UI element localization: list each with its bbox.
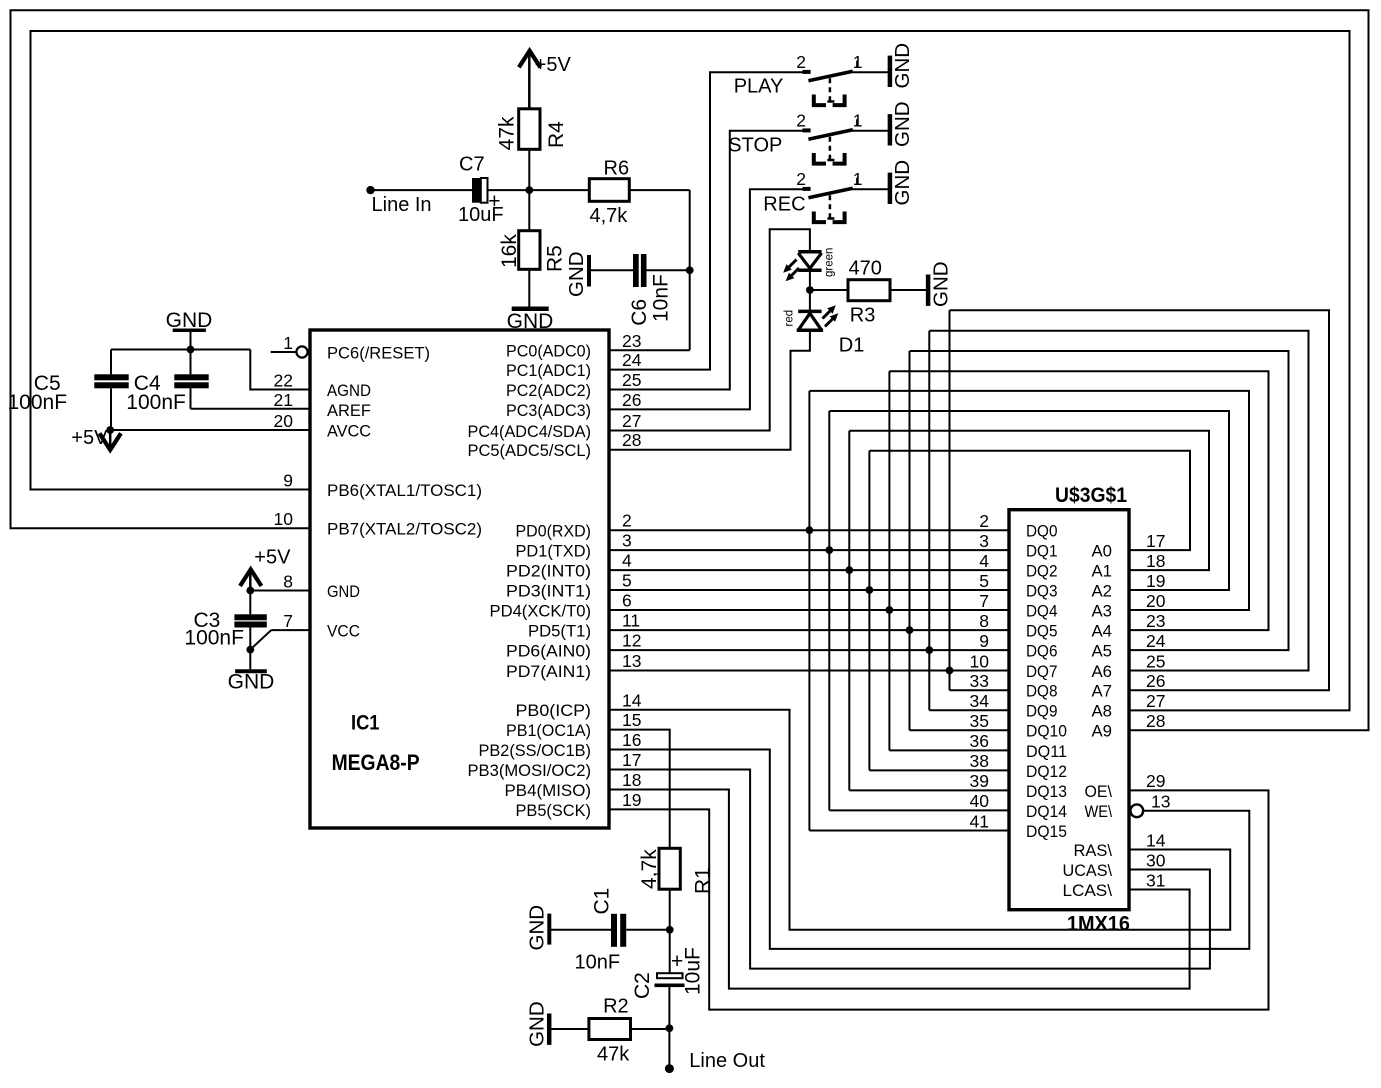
- wire C6 to node B: [647, 269, 690, 271]
- wire R4 to node A: [528, 149, 530, 190]
- wire DQ12 to column: [869, 769, 1009, 771]
- svg-text:470: 470: [849, 258, 882, 280]
- svg-text:GND: GND: [526, 1001, 549, 1047]
- wire R6 to PC0 column: [629, 189, 689, 191]
- svg-text:AREF: AREF: [327, 401, 371, 420]
- svg-text:29: 29: [1146, 771, 1165, 791]
- svg-text:18: 18: [622, 770, 641, 790]
- svg-text:10uF: 10uF: [458, 204, 504, 226]
- svg-text:DQ9: DQ9: [1026, 702, 1058, 721]
- LED D1 green: [798, 250, 821, 254]
- svg-text:A3: A3: [1092, 601, 1113, 620]
- svg-text:PD2(INT0): PD2(INT0): [506, 562, 591, 581]
- svg-text:DQ11: DQ11: [1026, 742, 1067, 761]
- wire PB1 pin15 to R1: [609, 730, 670, 849]
- capacitor C6: [633, 254, 639, 287]
- svg-text:4: 4: [622, 551, 632, 571]
- svg-text:2: 2: [979, 511, 989, 531]
- wire MCU to REC switch: [609, 189, 803, 409]
- svg-text:4,7k: 4,7k: [638, 849, 661, 889]
- svg-text:PB3(MOSI/OC2): PB3(MOSI/OC2): [468, 761, 592, 780]
- ground at R3: [926, 275, 931, 306]
- svg-text:D1: D1: [839, 335, 865, 357]
- svg-text:25: 25: [1146, 651, 1165, 671]
- wire memory A5 loop: [910, 351, 1289, 650]
- svg-text:DQ15: DQ15: [1026, 822, 1067, 841]
- svg-text:20: 20: [274, 411, 294, 431]
- svg-text:GND: GND: [930, 261, 953, 307]
- node Line Out terminal: [665, 1064, 674, 1073]
- svg-text:26: 26: [1146, 671, 1165, 691]
- svg-text:38: 38: [970, 751, 989, 771]
- svg-text:25: 25: [622, 370, 641, 390]
- svg-text:10: 10: [274, 509, 294, 529]
- pin WE inversion circle: [1130, 804, 1143, 817]
- svg-text:Line In: Line In: [372, 194, 432, 216]
- svg-text:DQ7: DQ7: [1026, 662, 1058, 681]
- ground at REC: [888, 173, 893, 204]
- svg-text:9: 9: [283, 470, 293, 490]
- svg-text:100nF: 100nF: [184, 626, 244, 649]
- wire memory A0 loop: [869, 451, 1190, 550]
- svg-text:1: 1: [283, 333, 293, 353]
- wire C3 to gnd node: [249, 628, 251, 650]
- svg-text:100nF: 100nF: [126, 391, 186, 414]
- wire MCU PC4 pin 27 to green LED: [609, 229, 810, 430]
- wire PB0 pin14 to RAS: [609, 710, 1230, 930]
- switch S-REC: [803, 187, 811, 191]
- IC IC1 MEGA8-P body: [310, 330, 609, 828]
- svg-text:A7: A7: [1092, 682, 1113, 701]
- wire PB2 pin16 to WE: [609, 750, 1249, 949]
- svg-text:AGND: AGND: [327, 381, 371, 400]
- ground at C1: [547, 914, 551, 945]
- node C3 gnd junction: [246, 646, 254, 654]
- svg-text:17: 17: [622, 750, 641, 770]
- wire node B to MCU PC0 pin 23: [689, 270, 691, 350]
- power +5V arrow down left: [109, 430, 112, 447]
- ground at C6: [587, 255, 591, 287]
- svg-text:REC: REC: [763, 193, 805, 215]
- ground at R2: [547, 1014, 552, 1045]
- wire to MCU AVCC pin 20: [110, 429, 310, 431]
- wire MCU to PLAY switch: [609, 72, 803, 369]
- svg-text:30: 30: [1146, 850, 1166, 870]
- svg-text:R3: R3: [850, 305, 876, 327]
- ground at PLAY: [888, 56, 893, 87]
- svg-text:1MX16: 1MX16: [1067, 913, 1130, 936]
- wire R5 to ground: [528, 269, 530, 306]
- svg-text:19: 19: [622, 790, 641, 810]
- wire node A to R6: [529, 189, 589, 191]
- wire C5 C4 gnd rail: [111, 349, 250, 351]
- node D1 junction: [806, 286, 814, 294]
- svg-text:10nF: 10nF: [650, 274, 673, 322]
- wire memory A3 loop: [809, 391, 1249, 610]
- wire DQ10 to column: [910, 729, 1010, 731]
- svg-text:15: 15: [622, 710, 641, 730]
- svg-text:PLAY: PLAY: [734, 75, 784, 97]
- wire PLAY to ground: [851, 71, 888, 73]
- svg-text:10uF: 10uF: [682, 947, 705, 995]
- svg-text:STOP: STOP: [728, 134, 782, 156]
- svg-text:DQ8: DQ8: [1026, 682, 1058, 701]
- pin 1 reset stub and circle: [271, 351, 297, 353]
- wire node A to R5: [528, 190, 530, 231]
- svg-text:PD4(XCK/T0): PD4(XCK/T0): [490, 601, 592, 620]
- ground below R5: [512, 306, 549, 311]
- svg-text:22: 22: [274, 370, 293, 390]
- svg-text:A8: A8: [1092, 702, 1113, 721]
- svg-text:5: 5: [622, 571, 632, 591]
- svg-text:3: 3: [622, 531, 632, 551]
- wire PB6 pin9 to memory A8 inner loop: [31, 31, 1350, 710]
- switch S-PLAY: [803, 70, 811, 74]
- svg-text:R4: R4: [545, 121, 568, 148]
- svg-text:1: 1: [853, 52, 863, 72]
- svg-text:16k: 16k: [498, 234, 521, 268]
- svg-text:A0: A0: [1092, 542, 1113, 561]
- node D5 junction: [906, 626, 914, 634]
- wire data column D0: [808, 391, 810, 831]
- svg-text:GND: GND: [565, 251, 588, 297]
- node Line In terminal: [366, 186, 374, 194]
- svg-text:2: 2: [622, 511, 632, 531]
- svg-text:2: 2: [796, 111, 806, 131]
- svg-text:36: 36: [970, 731, 989, 751]
- wire memory A2 loop: [829, 411, 1229, 590]
- LED D1 red arrows: [823, 310, 832, 319]
- svg-text:GND: GND: [891, 43, 914, 89]
- svg-text:13: 13: [622, 651, 641, 671]
- svg-text:green: green: [824, 248, 836, 277]
- wire R2 to node D: [631, 1028, 670, 1030]
- svg-text:2: 2: [796, 169, 806, 189]
- svg-text:19: 19: [1146, 571, 1165, 591]
- wire DQ15 to column: [809, 830, 1009, 832]
- capacitor C5: [110, 350, 112, 375]
- svg-text:1: 1: [853, 111, 863, 131]
- wire memory A1 loop: [849, 431, 1209, 570]
- wire R3 to ground: [890, 289, 926, 291]
- svg-text:13: 13: [1151, 792, 1170, 812]
- svg-text:PD0(RXD): PD0(RXD): [516, 522, 592, 541]
- resistor R3: [848, 280, 890, 301]
- svg-text:10nF: 10nF: [575, 952, 621, 974]
- svg-text:A5: A5: [1092, 642, 1113, 661]
- switch S-STOP: [803, 128, 811, 132]
- wire PB4 pin18 to LCAS: [609, 790, 1190, 989]
- svg-text:C2: C2: [631, 972, 654, 999]
- wire DQ11 to column: [889, 749, 1009, 751]
- wire rail to MCU AGND pin 22: [250, 350, 310, 390]
- svg-text:DQ12: DQ12: [1026, 762, 1067, 781]
- wire data column D7: [949, 310, 951, 690]
- wire data column D6: [928, 331, 930, 711]
- wire VCC pin 7 diagonal: [271, 629, 310, 631]
- capacitor C1: [611, 914, 617, 947]
- svg-text:AVCC: AVCC: [327, 421, 371, 440]
- svg-text:39: 39: [970, 771, 989, 791]
- IC U$3G$1 1MX16 body: [1009, 510, 1129, 910]
- svg-text:VCC: VCC: [327, 622, 360, 641]
- wire PB3 pin17 to UCAS: [609, 770, 1210, 969]
- svg-text:12: 12: [622, 631, 641, 651]
- wire REC to ground: [851, 188, 888, 190]
- node +5V C5 junction: [106, 426, 114, 434]
- svg-text:23: 23: [622, 331, 641, 351]
- wire to MCU GND pin 8: [250, 590, 310, 592]
- wire MCU to STOP switch: [609, 131, 803, 390]
- svg-text:+5V: +5V: [535, 54, 572, 76]
- wire PB5 pin19 to OE: [609, 790, 1269, 1009]
- wire node C to C2: [669, 930, 671, 973]
- node B junction C6 R6 PC0: [686, 266, 694, 274]
- wire C2 to node D: [668, 987, 670, 1028]
- svg-text:27: 27: [622, 411, 641, 431]
- wire PD2 data bus row: [609, 569, 1009, 571]
- svg-text:A6: A6: [1092, 662, 1113, 681]
- svg-text:DQ5: DQ5: [1026, 622, 1058, 641]
- svg-text:26: 26: [622, 390, 641, 410]
- wire DQ9 to column: [929, 709, 1009, 711]
- svg-text:28: 28: [622, 430, 641, 450]
- svg-text:33: 33: [970, 671, 989, 691]
- wire Line In to C7: [371, 189, 473, 191]
- svg-text:A1: A1: [1092, 562, 1113, 581]
- svg-text:PC6(/RESET): PC6(/RESET): [327, 343, 430, 362]
- resistor R5: [519, 231, 540, 270]
- resistor R6: [589, 179, 629, 202]
- node D6 junction: [925, 646, 933, 654]
- wire DQ8 to column: [950, 689, 1010, 691]
- svg-text:+5V: +5V: [71, 427, 108, 449]
- power +5V arrow at C3: [240, 569, 261, 586]
- wire to ground C3: [249, 650, 251, 670]
- LED D1 red: [798, 310, 821, 314]
- wire PD7 data bus row: [609, 670, 1009, 672]
- svg-text:6: 6: [622, 591, 632, 611]
- svg-text:R5: R5: [544, 245, 567, 272]
- capacitor C4: [190, 350, 192, 375]
- wire PD1 data bus row: [609, 549, 1009, 551]
- svg-text:27: 27: [1146, 691, 1165, 711]
- wire C4 to MCU AREF pin 21: [191, 408, 311, 410]
- svg-text:4: 4: [979, 551, 989, 571]
- svg-text:4,7k: 4,7k: [590, 205, 629, 227]
- node VCC junction pin 8: [246, 587, 254, 595]
- wire ground to C1: [551, 929, 611, 931]
- svg-text:DQ2: DQ2: [1026, 562, 1058, 581]
- svg-text:40: 40: [970, 791, 990, 811]
- svg-text:PB7(XTAL2/TOSC2): PB7(XTAL2/TOSC2): [327, 520, 482, 539]
- wire ground to R2: [551, 1028, 589, 1030]
- wire data column D1: [828, 411, 830, 810]
- svg-text:WE\: WE\: [1085, 802, 1113, 821]
- svg-text:R6: R6: [604, 158, 630, 180]
- svg-text:IC1: IC1: [351, 712, 380, 735]
- wire data column D3: [868, 451, 870, 771]
- svg-text:PB0(ICP): PB0(ICP): [516, 701, 592, 720]
- svg-text:1: 1: [853, 169, 863, 189]
- svg-text:8: 8: [979, 611, 989, 631]
- svg-text:23: 23: [1146, 611, 1165, 631]
- wire data column D2: [848, 431, 850, 791]
- LED D1 green arrows: [788, 260, 797, 269]
- wire memory A4 loop: [889, 371, 1268, 630]
- node C junction R1 C1 C2: [666, 926, 674, 934]
- svg-text:2: 2: [796, 52, 806, 72]
- wire R1 to node C: [669, 889, 671, 930]
- svg-text:C7: C7: [459, 154, 485, 176]
- svg-text:14: 14: [1146, 830, 1166, 850]
- resistor R2: [589, 1019, 631, 1040]
- wire data column D4: [888, 371, 890, 750]
- wire C7 to node A: [488, 189, 530, 191]
- svg-text:34: 34: [970, 691, 990, 711]
- svg-text:A2: A2: [1092, 581, 1113, 600]
- node D7 junction: [946, 667, 954, 675]
- wire DQ14 to column: [829, 809, 1009, 811]
- svg-text:17: 17: [1146, 531, 1165, 551]
- svg-text:PB5(SCK): PB5(SCK): [516, 801, 592, 820]
- svg-text:18: 18: [1146, 551, 1165, 571]
- capacitor C2 (electrolytic): [657, 973, 683, 978]
- wire node D to Line Out: [668, 1028, 670, 1068]
- svg-text:28: 28: [1146, 711, 1165, 731]
- svg-text:14: 14: [622, 690, 642, 710]
- svg-text:PD6(AIN0): PD6(AIN0): [506, 642, 591, 661]
- svg-text:Line Out: Line Out: [689, 1050, 765, 1072]
- wire PD6 data bus row: [609, 649, 1009, 651]
- node D3 junction: [866, 586, 874, 594]
- svg-text:GND: GND: [228, 671, 275, 694]
- svg-text:DQ1: DQ1: [1026, 542, 1058, 561]
- resistor R4: [519, 109, 540, 150]
- wire +5V to C3: [249, 591, 251, 615]
- svg-text:DQ6: DQ6: [1026, 642, 1058, 661]
- svg-text:24: 24: [622, 350, 642, 370]
- node D0 junction: [806, 526, 814, 534]
- svg-text:47k: 47k: [597, 1044, 630, 1066]
- svg-text:PC4(ADC4/SDA): PC4(ADC4/SDA): [468, 422, 592, 441]
- svg-text:5: 5: [979, 571, 989, 591]
- svg-text:LCAS\: LCAS\: [1063, 881, 1113, 900]
- capacitor C7 (electrolytic): [472, 178, 488, 203]
- svg-text:9: 9: [979, 631, 989, 651]
- svg-text:GND: GND: [526, 905, 549, 951]
- svg-text:PC3(ADC3): PC3(ADC3): [506, 401, 591, 420]
- wire red LED to MCU PC5 pin 28: [609, 329, 810, 450]
- wire PB7 pin10 to memory A9 outer loop: [11, 10, 1369, 730]
- svg-text:PC5(ADC5/SCL): PC5(ADC5/SCL): [468, 441, 592, 460]
- svg-text:PC0(ADC0): PC0(ADC0): [506, 342, 591, 361]
- power +5V arrow top: [519, 51, 540, 68]
- svg-text:PD7(AIN1): PD7(AIN1): [506, 662, 591, 681]
- svg-text:red: red: [784, 310, 796, 327]
- node D junction R2 C2: [666, 1024, 674, 1032]
- svg-text:21: 21: [274, 390, 293, 410]
- svg-text:+5V: +5V: [254, 547, 291, 569]
- ground at STOP: [888, 114, 893, 145]
- svg-text:C6: C6: [628, 299, 651, 326]
- svg-text:PD1(TXD): PD1(TXD): [516, 542, 592, 561]
- svg-text:7: 7: [283, 611, 293, 631]
- svg-text:11: 11: [622, 611, 640, 631]
- svg-text:DQ0: DQ0: [1026, 522, 1058, 541]
- svg-text:PD3(INT1): PD3(INT1): [506, 581, 591, 600]
- wire memory A7 loop: [950, 310, 1330, 690]
- resistor R1: [659, 848, 680, 889]
- svg-text:GND: GND: [891, 101, 914, 147]
- svg-text:DQ4: DQ4: [1026, 601, 1058, 620]
- svg-text:35: 35: [970, 711, 989, 731]
- svg-text:MEGA8-P: MEGA8-P: [332, 750, 420, 775]
- svg-text:PB6(XTAL1/TOSC1): PB6(XTAL1/TOSC1): [327, 481, 482, 500]
- wire data column D5: [909, 351, 911, 730]
- svg-text:PC1(ADC1): PC1(ADC1): [506, 361, 591, 380]
- ground below C3: [235, 669, 267, 673]
- svg-text:16: 16: [622, 730, 641, 750]
- svg-text:GND: GND: [891, 160, 914, 206]
- svg-text:C1: C1: [591, 888, 614, 915]
- svg-text:31: 31: [1146, 870, 1165, 890]
- wire D1 to R3: [810, 289, 848, 291]
- node D2 junction: [845, 566, 853, 574]
- node GND C4 junction: [187, 346, 195, 354]
- svg-text:GND: GND: [327, 582, 360, 601]
- svg-text:24: 24: [1146, 631, 1166, 651]
- svg-text:PB1(OC1A): PB1(OC1A): [506, 721, 591, 740]
- svg-text:PB4(MISO): PB4(MISO): [505, 781, 592, 800]
- svg-text:R1: R1: [692, 867, 715, 894]
- svg-text:UCAS\: UCAS\: [1063, 861, 1113, 880]
- svg-text:41: 41: [970, 811, 989, 831]
- svg-text:PB2(SS/OC1B): PB2(SS/OC1B): [479, 741, 592, 760]
- svg-text:3: 3: [979, 531, 989, 551]
- svg-text:PD5(T1): PD5(T1): [528, 622, 591, 641]
- svg-text:7: 7: [979, 591, 989, 611]
- node D1 junction: [825, 546, 833, 554]
- svg-text:PC2(ADC2): PC2(ADC2): [506, 381, 591, 400]
- node A junction R4 R5 R6 C7: [525, 186, 533, 194]
- svg-text:DQ3: DQ3: [1026, 581, 1058, 600]
- wire memory A6 loop: [929, 331, 1308, 671]
- svg-text:10: 10: [970, 651, 990, 671]
- wire PD4 data bus row: [609, 609, 1009, 611]
- wire C1 to node C: [626, 929, 670, 931]
- wire PD0 data bus row: [609, 529, 1009, 531]
- svg-text:OE\: OE\: [1085, 782, 1113, 801]
- svg-text:8: 8: [283, 571, 293, 591]
- svg-text:RAS\: RAS\: [1074, 841, 1113, 860]
- svg-text:47k: 47k: [496, 116, 519, 150]
- wire ground to C6: [589, 269, 633, 271]
- svg-text:100nF: 100nF: [8, 391, 68, 414]
- svg-text:R2: R2: [603, 996, 629, 1018]
- wire PD5 data bus row: [609, 629, 1009, 631]
- svg-text:DQ10: DQ10: [1026, 722, 1067, 741]
- wire STOP to ground: [851, 130, 888, 132]
- node D4 junction: [886, 606, 894, 614]
- svg-text:20: 20: [1146, 591, 1166, 611]
- wire PD3 data bus row: [609, 589, 1009, 591]
- capacitor C3: [234, 614, 266, 620]
- svg-text:DQ14: DQ14: [1026, 802, 1067, 821]
- svg-text:A4: A4: [1092, 622, 1113, 641]
- svg-text:A9: A9: [1092, 722, 1113, 741]
- svg-text:U$3G$1: U$3G$1: [1055, 484, 1127, 507]
